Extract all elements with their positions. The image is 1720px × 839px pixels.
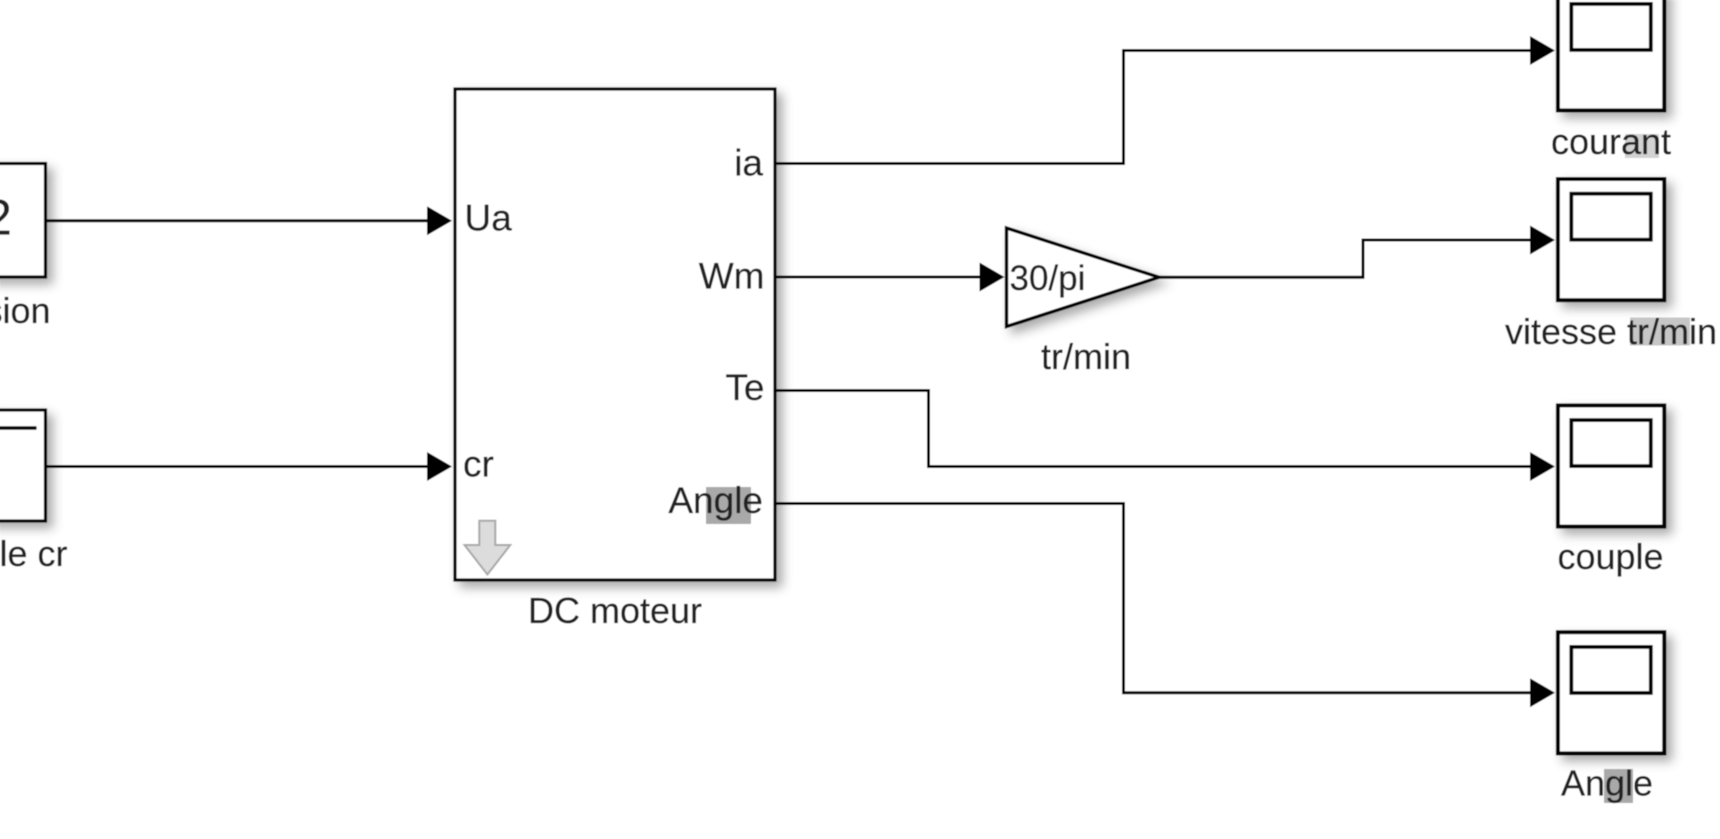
wire gain -> vitesse scope [1159,226,1555,278]
svg-text:Wm: Wm [699,256,765,297]
svg-text:cr: cr [463,444,494,485]
DC moteur subsystem block [455,89,775,580]
scope couple [1558,405,1664,526]
svg-text:courant: courant [1551,121,1671,162]
svg-text:couple: couple [1557,536,1663,577]
wire tension -> Ua [46,206,453,235]
step waveform icon [0,426,37,430]
wire couple cr -> cr [46,452,453,481]
step block "couple cr" (clipped at left edge) [0,410,46,521]
svg-text:couple cr: couple cr [0,533,68,574]
svg-text:Angle: Angle [668,480,763,521]
gray artifact behind Angle label [1604,769,1633,803]
svg-text:vitesse tr/min: vitesse tr/min [1505,311,1717,352]
gray artifact behind Angle port label [706,487,751,524]
wire Wm -> gain [775,263,1005,292]
svg-text:tension: tension [0,290,51,331]
svg-text:DC moteur: DC moteur [528,590,702,631]
wire ia -> courant scope [775,36,1555,164]
constant block "tension" (clipped at left edge) [0,164,46,278]
svg-text:Te: Te [725,367,764,408]
svg-text:Ua: Ua [465,198,513,239]
wire Angle -> Angle scope [775,504,1555,708]
scope courant [1558,0,1664,110]
svg-text:Angle: Angle [1561,763,1653,804]
svg-text:ia: ia [734,143,763,184]
gray artifact behind vitesse label [1630,318,1690,346]
svg-text:12: 12 [0,190,12,246]
scope Angle [1558,632,1664,753]
svg-text:30/pi: 30/pi [1010,259,1086,298]
gray artifact behind courant label [1625,134,1659,158]
gain triangle 30/pi [1007,228,1160,327]
gray down-arrow badge [465,521,511,575]
wire Te -> couple scope [775,391,1555,482]
svg-text:tr/min: tr/min [1041,336,1131,377]
scope vitesse [1558,179,1664,300]
